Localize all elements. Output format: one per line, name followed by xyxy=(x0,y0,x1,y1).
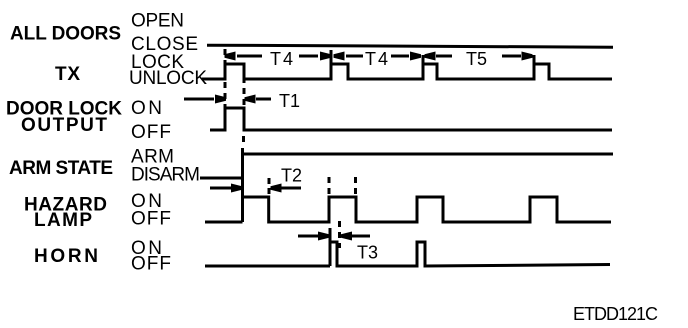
svg-text:T5: T5 xyxy=(466,49,487,69)
svg-text:TX: TX xyxy=(55,64,80,85)
svg-text:T2: T2 xyxy=(281,166,302,186)
svg-text:OFF: OFF xyxy=(131,122,171,143)
svg-text:T1: T1 xyxy=(279,91,300,111)
svg-text:ARM STATE: ARM STATE xyxy=(9,158,113,179)
svg-text:OUTPUT: OUTPUT xyxy=(21,115,107,136)
svg-text:OFF: OFF xyxy=(131,209,171,230)
svg-text:ETDD121C: ETDD121C xyxy=(573,304,658,324)
svg-text:OPEN: OPEN xyxy=(131,11,184,32)
svg-text:ALL DOORS: ALL DOORS xyxy=(10,24,121,45)
svg-text:HORN: HORN xyxy=(34,246,98,267)
svg-text:T3: T3 xyxy=(357,243,378,263)
svg-text:UNLOCK: UNLOCK xyxy=(129,68,207,89)
svg-text:OFF: OFF xyxy=(131,254,171,275)
svg-text:T4: T4 xyxy=(270,49,293,69)
svg-text:DISARM: DISARM xyxy=(131,165,200,186)
svg-text:T4: T4 xyxy=(365,49,388,69)
svg-text:ON: ON xyxy=(131,98,162,119)
svg-text:LAMP: LAMP xyxy=(34,210,92,231)
